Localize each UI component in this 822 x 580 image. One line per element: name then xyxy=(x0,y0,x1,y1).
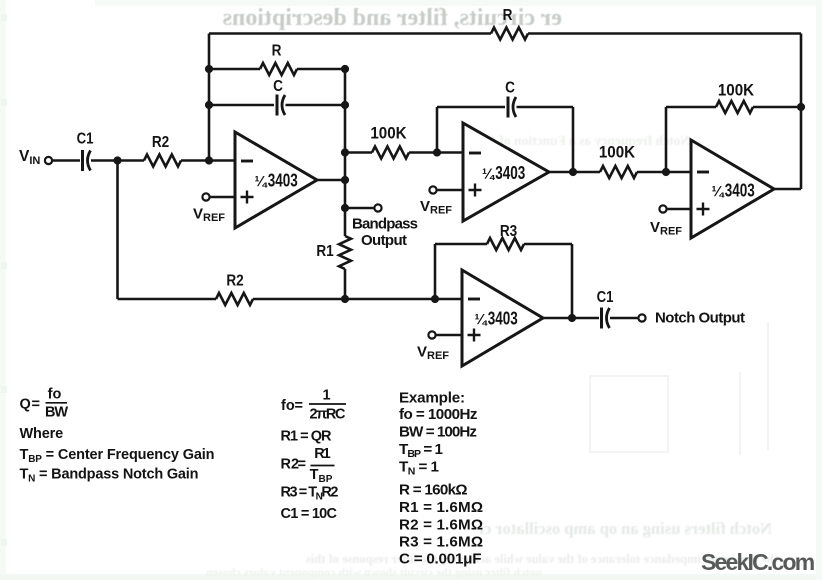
svg-text:TN = Bandpass Notch Gain: TN = Bandpass Notch Gain xyxy=(20,466,199,484)
wire U3 feedback top right xyxy=(753,106,801,109)
wire U3 feedback left vertical xyxy=(665,107,668,172)
svg-text:BW = 100Hz: BW = 100Hz xyxy=(399,424,477,441)
svg-text:3403: 3403 xyxy=(725,181,755,202)
svg-text:100K: 100K xyxy=(370,125,407,143)
wire bandpass branch xyxy=(345,207,374,210)
svg-text:R: R xyxy=(272,43,282,60)
wire C feedback right segment xyxy=(286,104,346,107)
wire 100K to U3 inverting input xyxy=(637,171,691,174)
capacitor C (U1 feedback) xyxy=(276,95,279,116)
op-amp U1 xyxy=(235,132,317,228)
ghost bottom body row 2 xyxy=(2,565,542,580)
resistor 100K (U2 to U3) xyxy=(600,166,637,178)
wire C1 to notch terminal xyxy=(610,317,638,320)
node R feedback left xyxy=(205,65,213,73)
U2 VREF terminal xyxy=(429,186,436,193)
svg-text:100K: 100K xyxy=(599,144,636,162)
node 100K branch xyxy=(341,148,349,156)
wire VREF2 to U2 plus xyxy=(437,189,463,192)
wire vertical from node A down to bottom rail xyxy=(116,161,119,300)
svg-text:C = 0.001μF: C = 0.001μF xyxy=(399,551,482,568)
svg-text:VREF: VREF xyxy=(193,206,225,225)
svg-text:Where: Where xyxy=(20,426,64,442)
wire R2 to U1 inverting input xyxy=(181,159,235,162)
svg-text:VREF: VREF xyxy=(417,344,449,363)
node U1 output xyxy=(341,176,349,184)
svg-text:R2: R2 xyxy=(226,273,243,290)
U4 plus marker xyxy=(468,329,481,342)
svg-text:R1 = 1.6MΩ: R1 = 1.6MΩ xyxy=(399,499,483,516)
wire U2 feedback top right xyxy=(517,106,574,109)
svg-text:fo=: fo= xyxy=(281,398,303,414)
wire U2 feedback right vertical xyxy=(572,107,575,172)
wire U4 feedback left vertical xyxy=(434,244,437,299)
wire VIN to C1 xyxy=(53,159,80,162)
wire U4 feedback top left xyxy=(435,243,487,246)
svg-text:C: C xyxy=(273,78,283,95)
wire U4 feedback top right xyxy=(524,243,572,246)
node U4 inverting input xyxy=(431,295,439,303)
resistor 100K (U1 to U2) xyxy=(372,147,409,159)
svg-text:TN = 1: TN = 1 xyxy=(399,459,440,478)
op-amp U3 xyxy=(691,140,774,238)
U1 plus marker xyxy=(241,191,254,204)
svg-text:3403: 3403 xyxy=(488,309,518,330)
frame bullet 5 xyxy=(1,539,7,546)
svg-text:TBP = Center Frequency Gain: TBP = Center Frequency Gain xyxy=(20,447,215,465)
wire R feedback left segment xyxy=(209,68,260,71)
svg-text:C1: C1 xyxy=(597,289,614,306)
resistor R3 (U4 feedback) xyxy=(487,238,524,250)
svg-text:R1: R1 xyxy=(316,243,333,260)
svg-text:fo: fo xyxy=(48,387,62,403)
wire right vertical xyxy=(800,34,803,190)
U2 plus marker xyxy=(469,184,482,197)
wire top rail right xyxy=(528,32,801,35)
ghost mid line xyxy=(384,133,690,149)
svg-text:BW: BW xyxy=(45,405,68,421)
resistor R2 (input) xyxy=(144,155,181,167)
frame left bar xyxy=(0,0,6,580)
svg-text:R = 160kΩ: R = 160kΩ xyxy=(399,482,468,499)
U1 minus marker xyxy=(241,160,253,163)
svg-text:R1: R1 xyxy=(314,446,331,462)
svg-text:100K: 100K xyxy=(718,82,755,100)
wire VREF1 to U1 plus xyxy=(210,196,235,199)
svg-text:3403: 3403 xyxy=(268,171,298,192)
frame right bar xyxy=(816,0,822,580)
op-amp U4 xyxy=(462,270,543,366)
wire VREF4 to U4 plus xyxy=(436,334,462,337)
svg-text:R3 = 1.6MΩ: R3 = 1.6MΩ xyxy=(399,534,483,551)
svg-text:Output: Output xyxy=(361,232,407,249)
wire bottom rail left xyxy=(118,298,217,301)
node A junction xyxy=(113,156,121,164)
wire U2 feedback top left xyxy=(437,106,505,109)
capacitor C1 (output) xyxy=(600,308,603,329)
U2 minus marker xyxy=(469,152,481,155)
svg-text:Q=: Q= xyxy=(20,397,40,413)
svg-text:R3: R3 xyxy=(500,223,517,240)
svg-text:1: 1 xyxy=(322,388,330,404)
wire to 100K first xyxy=(345,151,372,154)
notch output terminal xyxy=(638,314,645,321)
svg-text:Example:: Example: xyxy=(399,390,465,407)
node U4 output xyxy=(568,314,576,322)
svg-text:R2=: R2= xyxy=(281,457,306,473)
capacitor C (U2 feedback) xyxy=(507,97,510,118)
frame top bar xyxy=(95,0,822,6)
ghost bottom heading xyxy=(310,519,772,539)
wire bottom rail right xyxy=(253,298,462,301)
svg-text:R2 = 1.6MΩ: R2 = 1.6MΩ xyxy=(399,517,483,534)
node feedback right R xyxy=(341,65,349,73)
node C feedback left xyxy=(205,101,213,109)
svg-text:3403: 3403 xyxy=(495,163,525,184)
svg-text:VIN: VIN xyxy=(19,148,40,167)
wire U2 output xyxy=(549,171,600,174)
wire U4 output xyxy=(543,317,599,320)
svg-text:fo = 1000Hz: fo = 1000Hz xyxy=(399,406,478,423)
wire feedback left vertical xyxy=(208,34,211,161)
svg-text:C1 = 10C: C1 = 10C xyxy=(281,506,338,522)
U3 minus marker xyxy=(697,171,709,174)
svg-text:TBP: TBP xyxy=(310,467,333,485)
svg-text:C: C xyxy=(505,80,515,97)
frame bottom bar xyxy=(0,574,822,580)
U4 minus marker xyxy=(468,298,480,301)
frame bullet 3 xyxy=(1,262,7,269)
svg-text:¼: ¼ xyxy=(712,185,726,201)
wire U3 output xyxy=(774,188,801,191)
wire VREF3 to U3 plus xyxy=(667,208,691,211)
resistor R (top) xyxy=(491,28,528,40)
node U2 output feedback xyxy=(569,168,577,176)
resistor R (U1 feedback) xyxy=(260,63,297,75)
wire U2 feedback left vertical xyxy=(436,107,439,153)
resistor 100K (U3 feedback) xyxy=(716,101,753,113)
op-amp U2 xyxy=(463,123,549,221)
svg-text:VREF: VREF xyxy=(650,219,682,238)
U3 VREF terminal xyxy=(659,205,666,212)
capacitor C1 (input) xyxy=(81,150,84,171)
svg-text:TBP = 1: TBP = 1 xyxy=(399,441,444,460)
svg-text:¼: ¼ xyxy=(255,175,269,191)
node U3 inverting input xyxy=(662,168,670,176)
svg-text:R3 = TNR2: R3 = TNR2 xyxy=(281,485,339,503)
svg-text:¼: ¼ xyxy=(482,167,496,183)
resistor R1 (vertical) xyxy=(339,236,351,269)
ghost bottom body row xyxy=(30,552,778,567)
U1 VREF terminal xyxy=(202,193,209,200)
svg-text:C1: C1 xyxy=(77,131,94,148)
wire 100K to U2 inverting input xyxy=(409,151,463,154)
node bottom rail R1 xyxy=(341,295,349,303)
node feedback right C xyxy=(341,101,349,109)
svg-text:Notch Output: Notch Output xyxy=(655,310,745,327)
ghost bleedthrough headline (mirrored) xyxy=(148,5,562,32)
resistor R2 (bottom) xyxy=(216,293,253,305)
svg-text:R1 = QR: R1 = QR xyxy=(281,429,333,445)
wire C feedback left segment xyxy=(209,104,274,107)
node top right xyxy=(797,103,805,111)
SeekIC.com logo xyxy=(701,549,813,576)
svg-text:¼: ¼ xyxy=(475,313,489,329)
node U2 inverting input xyxy=(433,148,441,156)
bandpass output terminal xyxy=(374,204,381,211)
svg-text:2πRC: 2πRC xyxy=(310,407,347,423)
frame bullet 1 xyxy=(1,14,7,21)
svg-text:R: R xyxy=(503,7,513,24)
U4 VREF terminal xyxy=(428,331,435,338)
node VIN terminal xyxy=(45,157,52,164)
U3 plus marker xyxy=(697,203,710,216)
svg-text:Bandpass: Bandpass xyxy=(352,216,418,233)
wire top rail xyxy=(209,32,491,35)
svg-text:VREF: VREF xyxy=(420,198,452,217)
svg-text:R2: R2 xyxy=(152,134,169,151)
frame bullet 2 xyxy=(1,99,7,106)
wire R1 bottom to bottom rail xyxy=(344,269,347,299)
wire U1 output xyxy=(317,179,345,182)
wire U3 feedback top left xyxy=(666,106,716,109)
wire C1 to U1 inverting input xyxy=(91,159,144,162)
wire right vertical of U1 feedback down to R1 xyxy=(344,69,347,236)
frame bullet 4 xyxy=(1,386,7,393)
wire R feedback right segment xyxy=(297,68,345,71)
wire U4 feedback right vertical xyxy=(571,244,574,318)
node at U1 inverting input xyxy=(205,156,213,164)
node bandpass branch xyxy=(341,204,349,212)
